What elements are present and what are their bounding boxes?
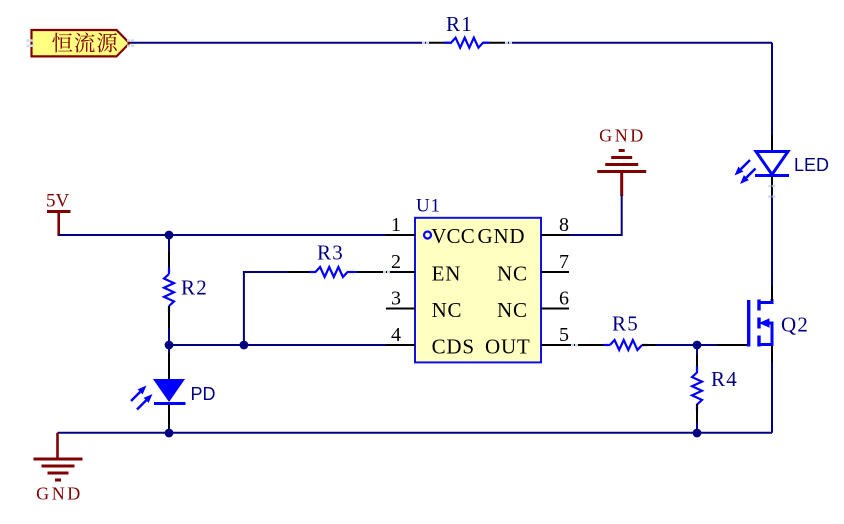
svg-text:R5: R5: [612, 312, 639, 336]
svg-text:1: 1: [391, 214, 401, 236]
svg-text:GND: GND: [36, 484, 83, 504]
svg-text:GND: GND: [478, 224, 526, 248]
svg-text:7: 7: [559, 251, 569, 273]
svg-text:OUT: OUT: [485, 335, 531, 359]
svg-text:GND: GND: [599, 126, 646, 146]
svg-text:6: 6: [559, 288, 569, 310]
svg-text:R2: R2: [181, 276, 208, 300]
svg-text:LED: LED: [794, 155, 829, 175]
svg-text:3: 3: [391, 288, 401, 310]
svg-text:5V: 5V: [46, 191, 70, 212]
svg-text:CDS: CDS: [432, 335, 475, 359]
svg-text:8: 8: [559, 214, 569, 236]
svg-text:EN: EN: [432, 262, 462, 286]
svg-text:2: 2: [391, 251, 401, 273]
svg-text:NC: NC: [432, 298, 463, 322]
svg-text:VCC: VCC: [431, 224, 475, 248]
svg-text:Q2: Q2: [781, 313, 809, 337]
svg-text:PD: PD: [191, 384, 216, 404]
svg-text:R1: R1: [446, 12, 473, 36]
svg-text:4: 4: [391, 324, 401, 346]
svg-text:R3: R3: [317, 241, 344, 265]
svg-text:NC: NC: [497, 262, 528, 286]
svg-text:5: 5: [559, 324, 569, 346]
svg-text:R4: R4: [711, 367, 738, 391]
svg-text:NC: NC: [497, 298, 528, 322]
svg-text:U1: U1: [416, 196, 441, 217]
